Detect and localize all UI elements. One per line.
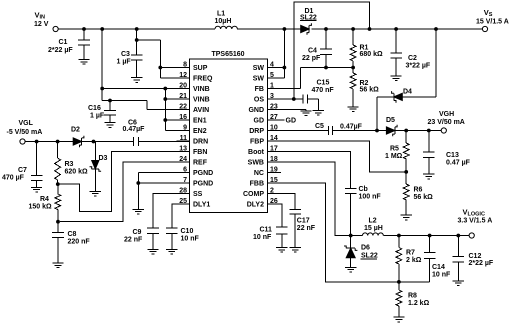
svg-text:0.47µF: 0.47µF <box>340 123 363 130</box>
wire SW pins to top rail <box>268 67 285 69</box>
svg-text:C7: C7 <box>18 167 27 174</box>
svg-text:GD: GD <box>286 117 297 124</box>
svg-text:R7: R7 <box>406 250 415 257</box>
svg-text:SUP: SUP <box>193 65 208 72</box>
wire PGND pins to ground <box>138 172 189 174</box>
svg-text:D3: D3 <box>99 155 108 162</box>
svg-text:EN2: EN2 <box>193 128 207 135</box>
wire DRP pin to C5 <box>268 130 329 132</box>
svg-text:FREQ: FREQ <box>193 76 213 83</box>
ground under C9 <box>147 248 158 250</box>
node switch node junction <box>349 234 353 238</box>
svg-text:D4: D4 <box>403 89 412 96</box>
resistor R4 150k <box>57 184 59 194</box>
svg-text:R5: R5 <box>390 146 399 153</box>
svg-text:22 nF: 22 nF <box>297 225 316 232</box>
svg-text:OS: OS <box>254 97 264 104</box>
node VGH terminal 23V 50mA <box>441 128 446 133</box>
wire FB pin to feedback node <box>268 88 301 90</box>
inductor L2 15uH <box>351 235 363 237</box>
ground under R6 <box>401 214 412 216</box>
ground under C3 <box>131 77 142 79</box>
diode D4 <box>394 93 403 100</box>
svg-text:470 nF: 470 nF <box>312 87 335 94</box>
wire GND pin to ground <box>268 109 307 111</box>
capacitor C7 470uF <box>36 142 38 176</box>
ground under C13 <box>423 173 434 175</box>
wire D5 cathode to VGH terminal <box>395 130 441 132</box>
svg-text:C8: C8 <box>68 231 77 238</box>
diode D3 <box>94 142 96 161</box>
svg-text:C15: C15 <box>317 80 330 87</box>
svg-text:C1: C1 <box>59 39 68 46</box>
diode D2 <box>73 138 82 145</box>
wire VIN 12V top rail <box>58 28 215 30</box>
wire rail to C3 and SUP feed <box>136 29 138 55</box>
ground under C16 <box>104 122 115 124</box>
svg-text:VINB: VINB <box>193 97 210 104</box>
node VGL terminal -5V 50mA <box>20 139 25 144</box>
ground under R2 <box>348 106 359 108</box>
node junctions on VGL line <box>35 140 39 144</box>
svg-text:R4: R4 <box>40 196 49 203</box>
svg-text:1 MΩ: 1 MΩ <box>385 153 403 160</box>
svg-text:2 kΩ: 2 kΩ <box>406 257 422 264</box>
node GD net label <box>268 119 285 121</box>
svg-text:GD: GD <box>254 118 265 125</box>
svg-text:3.3 V/1.5 A: 3.3 V/1.5 A <box>458 218 493 225</box>
capacitor C10 10nF on DLY1 <box>172 204 190 228</box>
svg-text:620 kΩ: 620 kΩ <box>65 169 89 176</box>
capacitor C3 1uF <box>131 54 143 56</box>
U1 left pin stubs, numbers and names <box>177 67 190 69</box>
svg-text:10 nF: 10 nF <box>181 236 200 243</box>
svg-text:15 V/1.5 A: 15 V/1.5 A <box>476 19 509 26</box>
svg-text:220 nF: 220 nF <box>68 239 91 246</box>
svg-text:1 µF: 1 µF <box>117 59 132 66</box>
svg-text:56 kΩ: 56 kΩ <box>414 194 434 201</box>
svg-text:FBB: FBB <box>250 181 264 188</box>
ground under C15 <box>313 110 324 112</box>
resistor R3 620k <box>57 142 59 159</box>
node R4/C8/REF junction <box>56 220 60 224</box>
ground under R8 <box>393 316 404 318</box>
wire REF to R4 bottom <box>60 162 190 222</box>
svg-text:C17: C17 <box>297 218 310 225</box>
svg-text:L1: L1 <box>217 11 225 18</box>
svg-text:SW: SW <box>253 65 265 72</box>
ground under C17 <box>290 247 301 249</box>
svg-text:C10: C10 <box>181 228 194 235</box>
svg-text:EN1: EN1 <box>193 118 207 125</box>
svg-text:2*22 µF: 2*22 µF <box>48 47 73 54</box>
resistor R7 2k <box>398 236 400 248</box>
diode D5 <box>386 127 395 134</box>
node R3/R4 junction <box>56 182 60 186</box>
svg-text:R6: R6 <box>414 187 423 194</box>
node junction dots on top rail <box>82 27 86 31</box>
wire L2 to VLOGIC terminal <box>383 235 469 237</box>
svg-text:12 V: 12 V <box>34 21 49 28</box>
resistor R1 680k <box>352 29 354 45</box>
svg-text:FBP: FBP <box>250 139 264 146</box>
capacitor C12 2x22uF <box>457 236 459 257</box>
wire Boot pin to Cb <box>268 152 351 189</box>
svg-text:IN: IN <box>40 14 46 20</box>
svg-text:REF: REF <box>193 160 208 167</box>
svg-text:10 nF: 10 nF <box>253 234 272 241</box>
capacitor C15 470nF <box>302 94 304 103</box>
svg-text:680 kΩ: 680 kΩ <box>360 51 384 58</box>
svg-text:SS: SS <box>193 191 203 198</box>
svg-text:23 V/50 mA: 23 V/50 mA <box>428 119 465 126</box>
svg-text:S: S <box>489 12 493 18</box>
svg-text:TPS65160: TPS65160 <box>211 51 244 58</box>
svg-text:C14: C14 <box>432 264 445 271</box>
svg-text:PGND: PGND <box>193 170 213 177</box>
wire SWB pin to switch node <box>268 162 351 236</box>
capacitor C16 1uF <box>108 99 112 103</box>
svg-text:VGH: VGH <box>439 111 454 118</box>
svg-text:D2: D2 <box>71 127 80 134</box>
diode D1 SL22 <box>301 25 310 32</box>
ground under C11 <box>276 247 287 249</box>
op-amp U1 TPS65160 IC body <box>190 59 268 213</box>
svg-text:VGL: VGL <box>19 120 34 127</box>
capacitor Cb 100nF <box>345 188 357 190</box>
capacitor C14 10nF <box>429 236 431 253</box>
wire D4 cathode to charge pump node <box>377 96 394 98</box>
ground for PGND <box>133 208 144 210</box>
svg-text:3*22 µF: 3*22 µF <box>406 63 431 70</box>
node R5/R6/FBP junction <box>404 170 408 174</box>
svg-text:11: 11 <box>180 135 188 142</box>
svg-text:SW: SW <box>253 76 265 83</box>
svg-text:1.2 kΩ: 1.2 kΩ <box>408 300 430 307</box>
capacitor C5 0.47uF <box>327 126 329 135</box>
svg-text:PGND: PGND <box>193 181 213 188</box>
svg-text:150 kΩ: 150 kΩ <box>29 204 53 211</box>
svg-text:DRN: DRN <box>193 139 208 146</box>
ground under C10 <box>166 248 177 250</box>
svg-text:SWB: SWB <box>248 160 264 167</box>
svg-text:19: 19 <box>270 166 278 173</box>
wire rail down to VINB strap and AVIN jog <box>101 29 103 101</box>
svg-text:Boot: Boot <box>248 149 265 156</box>
svg-text:LOGIC: LOGIC <box>468 211 485 217</box>
diode D6 SL22 <box>350 236 352 249</box>
svg-text:DLY1: DLY1 <box>193 202 210 209</box>
svg-text:R3: R3 <box>65 161 74 168</box>
svg-text:R8: R8 <box>408 293 417 300</box>
ground under C2 <box>391 75 402 77</box>
node VLOGIC terminal 3.3V 1.5A <box>469 233 474 238</box>
svg-text:VINB: VINB <box>193 86 210 93</box>
svg-text:AVIN: AVIN <box>193 107 209 114</box>
svg-text:NC: NC <box>254 170 264 177</box>
svg-text:FBN: FBN <box>193 149 207 156</box>
resistor R5 1M <box>405 131 407 144</box>
svg-text:D6: D6 <box>361 245 370 252</box>
svg-text:22 pF: 22 pF <box>302 55 321 62</box>
wire C5 to D5 anode <box>332 130 386 132</box>
svg-text:C3: C3 <box>121 51 130 58</box>
wire FBN to R3/R4 divider <box>60 152 190 212</box>
capacitor C8 220nF <box>57 222 59 233</box>
svg-text:C4: C4 <box>308 48 317 55</box>
svg-text:C12: C12 <box>469 253 482 260</box>
wire Vs rail to D4 anode <box>435 29 437 97</box>
wire OS pin loop over D1 <box>268 98 304 100</box>
svg-text:56 kΩ: 56 kΩ <box>360 87 380 94</box>
wire L1 to D1 anode <box>237 28 301 30</box>
svg-text:Cb: Cb <box>359 186 368 193</box>
capacitor C13 0.47uF <box>428 131 430 153</box>
wire D1 cathode to Vs terminal <box>311 28 482 30</box>
capacitor C6 0.47uF in DRN line <box>133 137 135 146</box>
capacitor C2 3x22uF <box>395 29 397 53</box>
resistor R8 1.2k <box>398 282 400 290</box>
U1 right pin stubs, numbers and names <box>268 67 282 69</box>
ground for GND pin <box>300 110 311 112</box>
inductor L1 10uH <box>215 26 237 29</box>
svg-text:C9: C9 <box>133 229 142 236</box>
capacitor C9 22nF on SS <box>153 194 190 229</box>
svg-text:DLY2: DLY2 <box>247 202 264 209</box>
svg-text:0.47µF: 0.47µF <box>123 126 146 133</box>
ground under D3 <box>90 190 101 192</box>
svg-text:22 nF: 22 nF <box>124 237 143 244</box>
ground under C8 <box>52 262 63 264</box>
resistor R6 56k <box>405 172 407 184</box>
svg-text:C13: C13 <box>446 152 459 159</box>
svg-text:C5: C5 <box>315 123 324 130</box>
svg-text:1 µF: 1 µF <box>90 113 105 120</box>
ground under C1 <box>78 59 89 61</box>
resistor R2 56k <box>352 68 354 74</box>
ground under C12 <box>453 280 464 282</box>
capacitor C4 22pF <box>325 29 327 49</box>
svg-text:10µH: 10µH <box>215 18 232 25</box>
ground under C7 <box>31 186 42 188</box>
ground under D6 <box>345 266 356 268</box>
svg-text:C11: C11 <box>260 227 273 234</box>
capacitor C1 2x22uF <box>83 29 85 40</box>
svg-text:0.47 µF: 0.47 µF <box>446 160 471 167</box>
svg-text:SL22: SL22 <box>361 253 378 260</box>
node VIN terminal <box>53 26 58 31</box>
wire FBP pin to R5/R6 divider <box>268 141 405 172</box>
wire VGL line to C6 <box>25 141 133 143</box>
svg-text:C2: C2 <box>408 55 417 62</box>
node Vs output terminal 15V 1.5A <box>482 26 487 31</box>
svg-text:COMP: COMP <box>243 191 264 198</box>
svg-text:FB: FB <box>255 86 264 93</box>
svg-text:GND: GND <box>248 107 264 114</box>
capacitor C17 22nF on COMP <box>268 194 296 210</box>
svg-text:DRP: DRP <box>249 128 264 135</box>
node R7/R8/FBB junction <box>397 280 401 284</box>
svg-text:-5 V/50 mA: -5 V/50 mA <box>7 129 43 136</box>
svg-text:C16: C16 <box>88 105 101 112</box>
capacitor C11 10nF on DLY2 <box>268 204 282 227</box>
svg-text:D5: D5 <box>386 117 395 124</box>
svg-text:470 µF: 470 µF <box>2 175 25 182</box>
svg-text:2*22 µF: 2*22 µF <box>469 260 494 267</box>
svg-text:L2: L2 <box>369 218 377 225</box>
svg-text:10 nF: 10 nF <box>432 272 451 279</box>
svg-text:100 nF: 100 nF <box>359 194 382 201</box>
svg-text:15 µH: 15 µH <box>364 225 383 232</box>
wire FBB pin to feedback divider <box>268 183 430 282</box>
